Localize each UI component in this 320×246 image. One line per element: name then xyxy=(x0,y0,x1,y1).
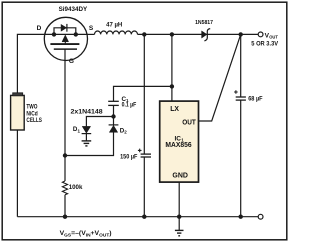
svg-text:LX: LX xyxy=(170,106,179,113)
terminal VOUT xyxy=(251,32,279,48)
wire: node B down to LX pin xyxy=(171,34,173,101)
node: C1 top joins LX line xyxy=(170,84,174,88)
ground: D1 xyxy=(82,134,92,146)
wire: C1 branch xyxy=(114,86,172,101)
wire: drain to battery top xyxy=(17,34,46,93)
node: gate / D2 junction xyxy=(63,153,67,157)
capacitor C1 0.1uF xyxy=(108,96,136,109)
svg-text:Si9434DY: Si9434DY xyxy=(59,6,88,13)
label VGS equation xyxy=(60,230,112,237)
op-amp IC1 MAX856 box xyxy=(160,101,199,182)
svg-text:5 OR 3.3V: 5 OR 3.3V xyxy=(251,41,279,48)
wire: node A down through 150uF to bottom rail xyxy=(143,34,145,154)
node dot B xyxy=(170,32,174,36)
svg-text:CELLS: CELLS xyxy=(26,117,42,124)
svg-text:S: S xyxy=(89,25,94,32)
ground: main xyxy=(175,217,184,236)
svg-text:2x1N4148: 2x1N4148 xyxy=(71,108,103,115)
wire: resistor to bottom rail xyxy=(64,195,66,217)
transistor Q1 Si9434DY (p-channel MOSFET) xyxy=(37,6,94,65)
wire: clamp node to D1 xyxy=(86,117,113,127)
node dot: resistor/rail xyxy=(63,215,67,219)
terminal: bottom right xyxy=(258,214,263,219)
diode D2 xyxy=(109,117,128,135)
diode D1 xyxy=(73,126,91,134)
svg-text:47 µH: 47 µH xyxy=(106,21,123,28)
node dot A xyxy=(142,32,146,36)
wire: VOUT node down through 68uF to bottom rail xyxy=(240,34,242,97)
node dot: GND/rail xyxy=(177,215,181,219)
wire: C1 bottom to clamp node xyxy=(113,105,115,116)
svg-text:D: D xyxy=(37,25,42,32)
wire: battery minus to bottom rail xyxy=(16,130,18,217)
svg-text:68 µF: 68 µF xyxy=(248,96,263,103)
svg-text:GND: GND xyxy=(172,172,188,179)
svg-text:1N5817: 1N5817 xyxy=(195,20,214,26)
wire: bottom rail xyxy=(17,216,258,218)
node dot: 68uF/rail xyxy=(239,215,243,219)
wire: gate line down to bottom rail xyxy=(64,49,66,181)
svg-text:MAX856: MAX856 xyxy=(165,142,191,149)
svg-text:OUT: OUT xyxy=(182,119,196,126)
svg-text:100k: 100k xyxy=(69,184,83,191)
svg-text:G: G xyxy=(69,58,74,65)
capacitor C2 150uF xyxy=(120,149,151,161)
wire: source to inductor xyxy=(87,33,94,35)
svg-text:150 µF: 150 µF xyxy=(120,154,137,161)
svg-text:0.1 µF: 0.1 µF xyxy=(122,102,137,109)
wire: OUT pin diagonal to VOUT node xyxy=(199,34,241,121)
wire: D2 anode to gate node xyxy=(65,132,114,155)
node VOUT junction xyxy=(239,32,243,36)
battery B1 TWO NiCd CELLS xyxy=(11,93,42,130)
svg-text:OUT: OUT xyxy=(269,35,278,40)
node dot: 150uF/rail xyxy=(142,215,146,219)
capacitor C3 68uF xyxy=(234,90,263,103)
wire: top rail to VOUT xyxy=(138,33,259,35)
diode D3 1N5817 xyxy=(195,20,214,41)
node: diode clamp junction xyxy=(111,114,115,118)
resistor R1 100k xyxy=(62,181,83,195)
wire: IC GND pin to bottom rail xyxy=(178,182,180,217)
inductor L1 47uH xyxy=(95,21,138,34)
